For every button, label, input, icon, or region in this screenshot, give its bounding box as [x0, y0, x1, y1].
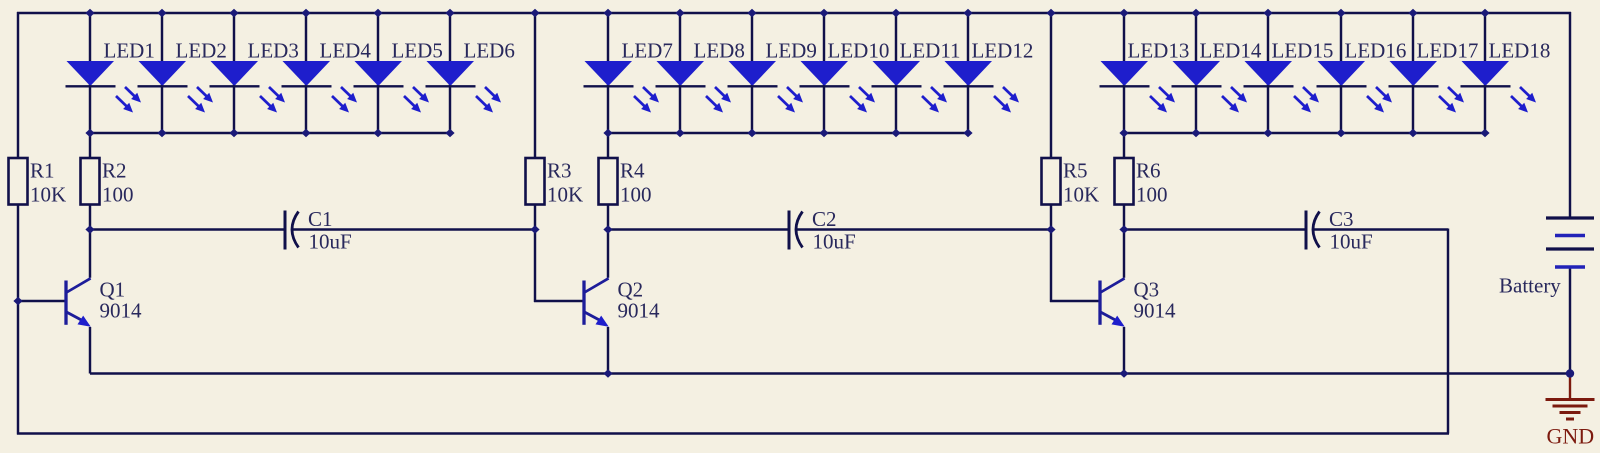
svg-text:9014: 9014 [100, 299, 143, 323]
svg-text:LED17: LED17 [1417, 39, 1479, 63]
svg-text:10K: 10K [1063, 183, 1099, 207]
svg-text:LED6: LED6 [464, 39, 515, 63]
svg-text:LED3: LED3 [248, 39, 299, 63]
svg-text:9014: 9014 [1134, 299, 1177, 323]
svg-text:R4: R4 [620, 159, 645, 183]
svg-text:Battery: Battery [1499, 274, 1561, 298]
svg-text:LED12: LED12 [972, 39, 1034, 63]
svg-text:10uF: 10uF [309, 230, 352, 254]
svg-text:R5: R5 [1063, 159, 1088, 183]
svg-text:10uF: 10uF [1330, 230, 1373, 254]
svg-text:100: 100 [102, 183, 134, 207]
svg-text:LED11: LED11 [900, 39, 961, 63]
svg-text:LED4: LED4 [320, 39, 372, 63]
svg-text:R3: R3 [547, 159, 572, 183]
svg-text:LED16: LED16 [1345, 39, 1407, 63]
svg-text:LED8: LED8 [694, 39, 745, 63]
svg-text:LED9: LED9 [766, 39, 817, 63]
svg-text:10K: 10K [547, 183, 583, 207]
svg-text:LED18: LED18 [1489, 39, 1551, 63]
svg-text:C3: C3 [1329, 207, 1354, 231]
svg-text:LED10: LED10 [828, 39, 890, 63]
svg-text:9014: 9014 [618, 299, 661, 323]
svg-text:R6: R6 [1136, 159, 1161, 183]
svg-text:LED5: LED5 [392, 39, 443, 63]
svg-text:LED13: LED13 [1128, 39, 1190, 63]
svg-text:C2: C2 [812, 207, 837, 231]
svg-text:R1: R1 [30, 159, 55, 183]
svg-text:100: 100 [1136, 183, 1168, 207]
svg-text:10K: 10K [30, 183, 66, 207]
svg-text:LED14: LED14 [1200, 39, 1262, 63]
svg-text:GND: GND [1547, 424, 1595, 449]
svg-text:C1: C1 [308, 207, 333, 231]
svg-text:LED15: LED15 [1272, 39, 1334, 63]
svg-text:LED1: LED1 [104, 39, 155, 63]
svg-text:100: 100 [620, 183, 652, 207]
svg-text:LED2: LED2 [176, 39, 227, 63]
svg-text:10uF: 10uF [813, 230, 856, 254]
svg-text:R2: R2 [102, 159, 127, 183]
svg-text:LED7: LED7 [622, 39, 673, 63]
